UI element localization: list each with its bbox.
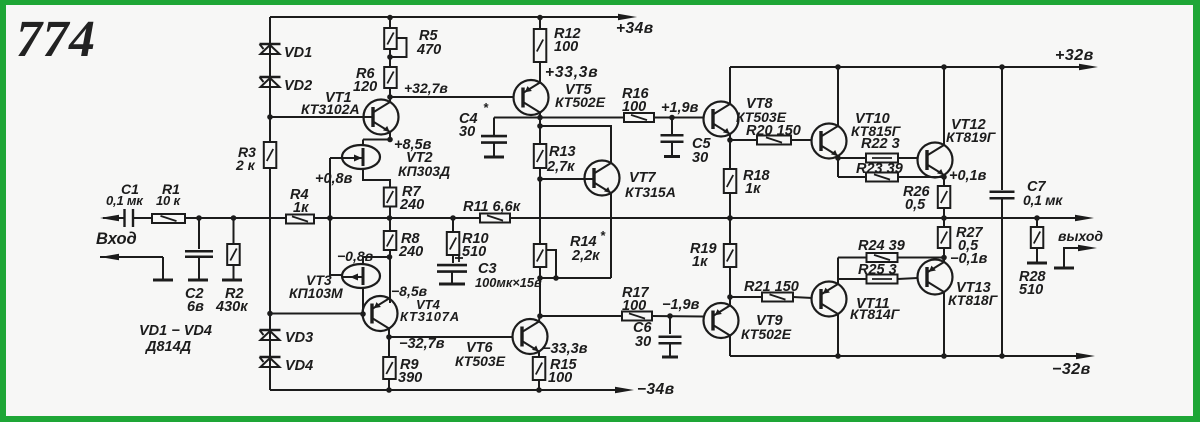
label +33.3V [545,64,598,81]
svg-text:КТ819Г: КТ819Г [946,129,997,145]
svg-text:+0,1в: +0,1в [949,168,987,184]
svg-text:0,5: 0,5 [905,197,926,213]
svg-text:−8,5в: −8,5в [391,283,428,299]
svg-text:R13: R13 [549,144,576,160]
wire VT2 source to R7 [363,169,390,188]
resistor R9 [383,337,422,393]
transistor VT1 [301,90,399,135]
wire VT11 emitter vertical [837,258,839,285]
resistor R12 [534,15,581,82]
wire VT10 collector [837,67,839,126]
svg-text:−32,7в: −32,7в [399,336,445,352]
wire VT1 base [267,114,373,120]
label -32.7V [399,336,445,352]
wire center line right section [510,215,1094,221]
svg-text:VD3: VD3 [285,330,313,346]
svg-text:2 к: 2 к [235,157,256,173]
svg-text:−32в: −32в [1052,361,1091,378]
transistor VT11 [812,282,901,323]
label -33.3V [542,341,588,357]
wire VT13 collector [943,292,945,356]
label -8.5V [391,283,428,299]
transistor VT10 [812,111,902,159]
resistor R4 [286,187,314,224]
resistor R1 [152,181,185,223]
wire +32.7V node [387,80,513,100]
wire +34V top rail [270,14,654,37]
svg-text:выход: выход [1058,228,1103,244]
capacitor C1 [106,181,152,227]
label -0.8V [337,248,374,264]
wire VT3 drain to VT4 base [360,288,366,317]
resistor R20 [730,123,813,145]
resistor R18 [724,168,771,244]
svg-text:0,1 мк: 0,1 мк [1023,192,1063,208]
wire R16 to VT8 base [654,100,704,120]
svg-text:КТ3107А: КТ3107А [400,309,460,324]
resistor R6 [353,49,397,97]
resistor R26 [903,184,950,227]
svg-text:КТ3102А: КТ3102А [301,101,360,117]
svg-text:−0,1в: −0,1в [950,251,988,267]
transistor VT13 [918,260,999,309]
svg-text:0,1 мк: 0,1 мк [106,193,144,208]
resistor R7 [384,184,424,218]
transistor VT12 [918,117,997,178]
wire R16 line [540,117,624,119]
transistor VT5 [514,80,606,115]
capacitor C5 [661,118,712,167]
resistor R10 [447,218,489,263]
svg-text:КТ818Г: КТ818Г [948,292,999,308]
resistor R17 [622,285,652,321]
svg-text:R24 39: R24 39 [858,238,905,254]
svg-text:КП303Д: КП303Д [398,163,450,179]
svg-text:30: 30 [692,150,708,166]
wire input ground stub [100,254,173,280]
node input line [103,217,124,219]
diode VD1 [260,44,313,61]
wire VT1 emitter to VT2 [363,132,393,145]
capacitor C4 [459,100,540,157]
wire VT11 collector [837,314,839,356]
label +8.5V [394,137,432,153]
transistor VT9 [704,303,792,342]
resistor R21 [730,279,813,302]
svg-text:КП103М: КП103М [289,285,343,301]
svg-text:+33,3в: +33,3в [545,64,598,81]
diode VD2 [260,77,313,94]
wire R1 to R4 [185,215,286,221]
svg-text:R11 6,6к: R11 6,6к [463,199,521,215]
transistor VT3 (JFET) [289,264,380,301]
wire VT7 collector loop [540,126,611,163]
svg-text:КТ814Г: КТ814Г [850,306,901,322]
wire VD chain vertical segments [269,17,271,390]
capacitor C7 [990,67,1064,356]
svg-text:100мк×15в: 100мк×15в [475,275,542,290]
transistor VT7 [585,161,676,201]
svg-text:VD4: VD4 [285,358,313,374]
svg-text:430к: 430к [215,299,248,315]
svg-text:240: 240 [399,197,424,213]
svg-text:774: 774 [16,11,96,68]
resistor R8 [384,218,423,303]
svg-text:R25 3: R25 3 [858,262,897,278]
wire VT10 emitter [835,155,841,177]
wire VT12 collector [943,67,945,145]
resistor R5 [384,15,441,60]
wire gate bias line [327,158,342,275]
label +0.8V [315,171,353,187]
svg-text:30: 30 [459,124,475,140]
svg-text:+1,9в: +1,9в [661,100,699,116]
svg-text:1к: 1к [745,181,761,197]
transistor VT8 [704,96,787,137]
svg-text:100: 100 [622,298,646,314]
resistor R23 [838,161,944,182]
svg-text:100: 100 [622,99,646,115]
resistor R16 [622,86,654,122]
svg-text:VD1 − VD4: VD1 − VD4 [139,323,212,339]
svg-text:240: 240 [398,244,423,260]
transistor VT6 [455,316,548,369]
svg-text:1к: 1к [692,254,708,270]
wire VT9 emitter to -32V rail [730,335,1095,378]
wire VT7 base [540,178,594,180]
capacitor C3 [437,254,542,290]
resistor R19 [690,241,736,305]
svg-text:+32,7в: +32,7в [404,80,448,96]
svg-text:30: 30 [635,334,651,350]
resistor R11 [463,199,521,223]
wire R4 to R7 node [314,215,480,221]
svg-text:390: 390 [398,370,422,386]
label VD1-VD4 [139,323,212,355]
svg-text:470: 470 [416,42,441,58]
transistor VT4 [363,296,461,331]
svg-text:2,2к: 2,2к [571,248,600,264]
resistor R2 [215,218,248,315]
svg-text:КТ502Е: КТ502Е [741,326,792,342]
svg-text:510: 510 [462,244,486,260]
node VT6 collector junction [537,313,543,319]
svg-text:КТ502Е: КТ502Е [555,94,606,110]
svg-text:6в: 6в [187,299,204,315]
svg-text:VD1: VD1 [284,45,312,61]
svg-text:+0,8в: +0,8в [315,171,353,187]
resistor R22 [838,136,918,163]
svg-text:R21 150: R21 150 [744,279,799,295]
wire VT8 emitter node [727,134,733,169]
wire VT12 emitter node [941,168,986,186]
wire R17 line [540,315,622,317]
resistor R3 [235,142,276,173]
svg-text:100: 100 [548,370,572,386]
capacitor C2 [185,218,213,315]
terminal output [1058,228,1103,244]
terminal input [96,215,137,248]
svg-text:−33,3в: −33,3в [542,341,588,357]
svg-text:−34в: −34в [637,381,675,398]
resistor R24 [838,238,944,262]
svg-text:VD2: VD2 [284,78,312,94]
svg-text:1к: 1к [293,200,309,216]
svg-text:+32в: +32в [1055,47,1094,64]
svg-text:Вход: Вход [96,230,137,248]
svg-text:10 к: 10 к [156,193,181,208]
transistor VT2 (JFET) [342,145,450,179]
diode VD4 [260,357,314,374]
capacitor C6 [633,316,682,357]
diode VD3 [260,330,314,346]
svg-text:2,7к: 2,7к [546,159,575,175]
resistor R25 [838,262,918,284]
resistor R14 [534,228,606,316]
svg-text:120: 120 [353,79,377,95]
wire VD3 node to VT4 base [267,311,362,317]
svg-text:+34в: +34в [616,20,654,37]
wire +32V top rail [730,47,1098,104]
wire VT5 collector chain [537,112,543,144]
resistor R27 [938,225,988,267]
wire VT3 source to R8 [363,257,389,264]
svg-text:КТ315А: КТ315А [625,184,676,200]
wire output ground stub [1054,245,1097,268]
svg-text:R20 150: R20 150 [746,123,801,139]
svg-text:R23 39: R23 39 [856,161,903,177]
wire VT7 emitter [537,193,611,281]
svg-text:−1,9в: −1,9в [662,297,700,313]
svg-text:КТ503Е: КТ503Е [455,353,506,369]
wire VT4 collector node [386,328,512,340]
wire -34V bottom rail [270,381,675,398]
resistor R15 [533,351,578,393]
svg-text:510: 510 [1019,282,1043,298]
svg-text:Д814Д: Д814Д [144,339,192,355]
svg-text:100: 100 [554,39,578,55]
resistor R28 [1019,218,1047,298]
resistor R13 [534,144,576,244]
wire R17 to VT9 base [652,297,704,319]
svg-text:R22 3: R22 3 [861,136,900,152]
